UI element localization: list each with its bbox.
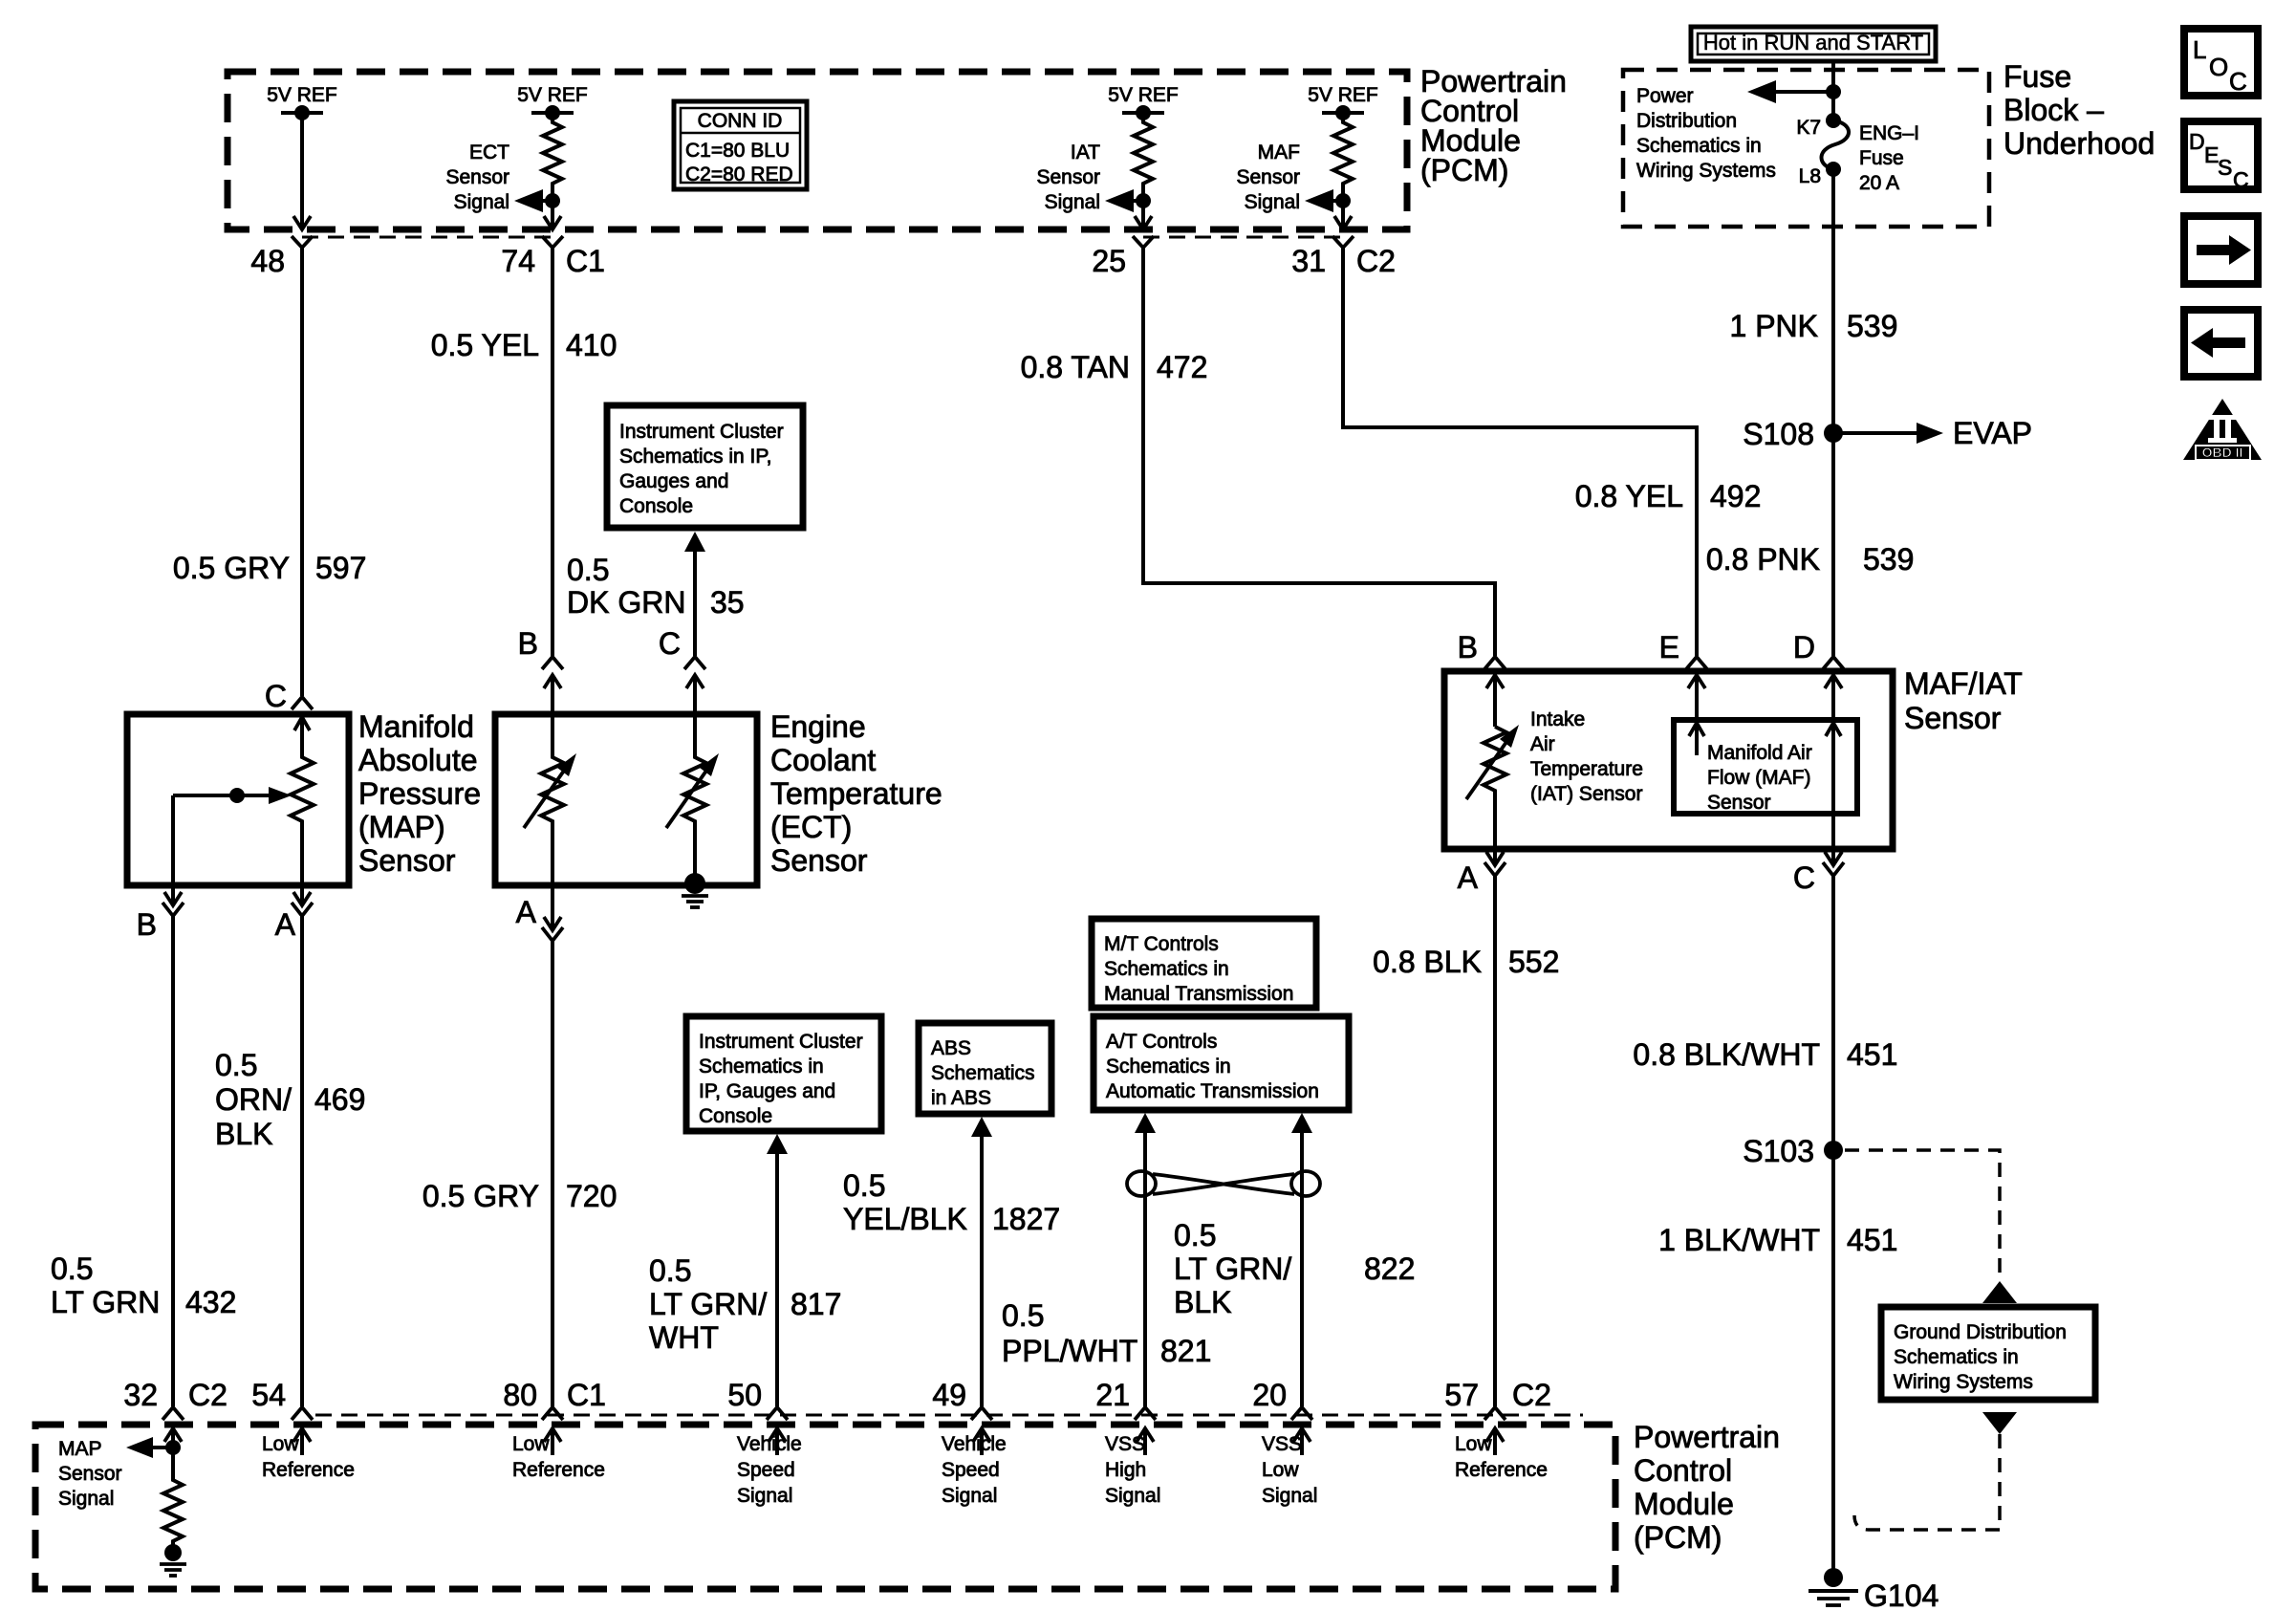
- svg-text:0.8 PNK: 0.8 PNK: [1706, 542, 1820, 577]
- svg-text:C1=80 BLU: C1=80 BLU: [685, 140, 790, 162]
- wire: 0.8 BLK/WHT 451 (MAF C to S103): [1831, 876, 1835, 1150]
- svg-text:Manual Transmission: Manual Transmission: [1104, 983, 1293, 1005]
- svg-text:(ECT): (ECT): [770, 810, 852, 844]
- wire: 0.5 DK GRN 35 (ECT C to cluster): [684, 532, 705, 656]
- wire: 0.5 YEL 410 (pin 74 to ECT B): [551, 248, 554, 656]
- svg-text:B: B: [518, 626, 538, 661]
- label: Vehicle Speed Signal (49): [942, 1433, 1007, 1507]
- svg-text:720: 720: [566, 1179, 617, 1213]
- wire: D through MAF: [1826, 723, 1841, 865]
- svg-text:Signal: Signal: [1105, 1485, 1160, 1507]
- label: MAF Sensor Signal: [1236, 142, 1300, 213]
- svg-text:Signal: Signal: [1045, 191, 1100, 213]
- svg-text:Underhood: Underhood: [2004, 126, 2155, 161]
- svg-text:1 PNK: 1 PNK: [1730, 309, 1818, 343]
- PCM top dashed box: [227, 72, 1407, 229]
- connector dashed line bottom: [315, 1414, 1583, 1417]
- label: 0.5 DK GRN 35: [567, 553, 745, 620]
- connector pin B (MAP bottom): [137, 885, 184, 942]
- svg-text:Gauges and: Gauges and: [619, 470, 728, 492]
- svg-text:0.5: 0.5: [843, 1168, 885, 1203]
- svg-text:Low: Low: [1262, 1459, 1299, 1481]
- icon arrow left: [2184, 310, 2258, 377]
- svg-text:Control: Control: [1634, 1453, 1732, 1488]
- Fuse Block dashed box: [1623, 70, 1989, 227]
- label: 0.5 LT GRN 432: [51, 1252, 236, 1319]
- svg-text:High: High: [1105, 1459, 1146, 1481]
- svg-text:Automatic Transmission: Automatic Transmission: [1106, 1080, 1319, 1102]
- label: 0.5 YEL/BLK 1827: [843, 1168, 1060, 1236]
- wire: 0.5 LT GRN/BLK 822 (pin 20 to A/T): [1291, 1113, 1312, 1406]
- wire: ECT signal to pin 74: [544, 201, 561, 229]
- label: MAP Sensor Signal: [58, 1438, 122, 1510]
- svg-text:Sensor: Sensor: [445, 166, 509, 188]
- connector pin A (MAP bottom): [275, 885, 313, 942]
- svg-text:C1: C1: [567, 1378, 606, 1412]
- wire: 0.5 PPL/WHT 821 (pin 21 to A/T): [1135, 1113, 1156, 1406]
- svg-text:Schematics in: Schematics in: [1894, 1346, 2019, 1368]
- svg-text:PPL/WHT: PPL/WHT: [1002, 1334, 1137, 1368]
- svg-text:A/T Controls: A/T Controls: [1106, 1031, 1217, 1053]
- resistor: PCM pull-up (MAF): [1333, 113, 1353, 201]
- svg-text:5V REF: 5V REF: [267, 84, 337, 106]
- svg-text:Instrument Cluster: Instrument Cluster: [619, 421, 784, 443]
- thermistor: ECT left: [524, 714, 576, 885]
- svg-text:Sensor: Sensor: [1707, 792, 1771, 814]
- svg-text:LT GRN/: LT GRN/: [649, 1287, 767, 1321]
- svg-text:Signal: Signal: [1245, 191, 1300, 213]
- connector pin 80 C1: [503, 1378, 606, 1455]
- PCM bottom dashed box: [35, 1425, 1615, 1589]
- ground G104: [1809, 1568, 1939, 1611]
- svg-text:CONN ID: CONN ID: [698, 110, 783, 132]
- label: Low Reference (57): [1455, 1433, 1548, 1481]
- connector pin 57 C2: [1444, 1378, 1551, 1455]
- svg-text:IAT: IAT: [1071, 142, 1100, 163]
- label: 0.8 PNK 539: [1706, 542, 1915, 577]
- svg-text:Reference: Reference: [512, 1459, 605, 1481]
- svg-text:VSS: VSS: [1105, 1433, 1145, 1455]
- svg-text:Module: Module: [1634, 1487, 1734, 1521]
- A/T Controls box: [1094, 1016, 1349, 1110]
- icon OBD II: [2183, 399, 2262, 460]
- svg-text:0.5 GRY: 0.5 GRY: [422, 1179, 539, 1213]
- svg-text:Signal: Signal: [1262, 1485, 1317, 1507]
- node: 5V REF (MAP): [267, 84, 337, 120]
- connector dashed line top right: [1143, 236, 1343, 239]
- svg-text:Low: Low: [512, 1433, 550, 1455]
- svg-text:S103: S103: [1743, 1134, 1814, 1168]
- label: Power Distribution Schematics in Wiring Systems: [1636, 85, 1776, 182]
- svg-text:Block –: Block –: [2004, 93, 2104, 127]
- svg-text:32: 32: [123, 1378, 158, 1412]
- svg-text:54: 54: [251, 1378, 286, 1412]
- svg-text:S: S: [2218, 155, 2232, 180]
- label: Fuse Block - Underhood: [2004, 59, 2155, 161]
- CONN ID box: [674, 101, 807, 189]
- svg-text:OBD II: OBD II: [2202, 445, 2243, 460]
- label: 0.5 GRY 720: [422, 1179, 617, 1213]
- connector pin 32 C2: [123, 1378, 227, 1448]
- svg-text:Sensor: Sensor: [1904, 701, 2002, 735]
- resistor: PCM (MAP signal): [163, 1448, 183, 1551]
- label: IAT Sensor Signal: [1036, 142, 1100, 213]
- svg-text:0.5: 0.5: [1174, 1218, 1216, 1252]
- svg-text:Schematics in: Schematics in: [1104, 958, 1229, 980]
- wire: fuse feed from Hot box: [1831, 61, 1835, 120]
- svg-text:WHT: WHT: [649, 1320, 719, 1355]
- svg-text:539: 539: [1847, 309, 1897, 343]
- wire: IAT signal to pin 25: [1135, 201, 1152, 229]
- svg-text:20: 20: [1252, 1378, 1287, 1412]
- svg-text:Signal: Signal: [58, 1488, 114, 1510]
- connector dashed line top left: [302, 236, 552, 239]
- svg-text:0.5 YEL: 0.5 YEL: [431, 328, 539, 362]
- svg-text:Coolant: Coolant: [770, 743, 876, 777]
- connector pin 48 C1: [250, 236, 313, 278]
- svg-text:48: 48: [250, 244, 285, 278]
- wire: 0.5 GRY 597 (pin 48 to MAP C): [300, 248, 304, 696]
- svg-text:49: 49: [932, 1378, 966, 1412]
- svg-text:O: O: [2209, 53, 2228, 81]
- svg-text:M/T Controls: M/T Controls: [1104, 933, 1219, 955]
- wire: 0.5 YEL/BLK 1827 (pin 49 to ABS): [971, 1117, 992, 1406]
- svg-text:0.8 BLK/WHT: 0.8 BLK/WHT: [1633, 1037, 1820, 1072]
- svg-text:G104: G104: [1864, 1578, 1939, 1611]
- svg-text:C2=80 RED: C2=80 RED: [685, 163, 793, 185]
- svg-text:Schematics in: Schematics in: [1636, 135, 1762, 157]
- svg-text:Power: Power: [1636, 85, 1694, 107]
- svg-text:0.5: 0.5: [51, 1252, 93, 1286]
- Ground Distribution box: [1881, 1307, 2095, 1400]
- wire: 0.8 YEL 492 (pin 31 to MAF E): [1343, 248, 1697, 656]
- svg-text:in ABS: in ABS: [931, 1087, 991, 1109]
- ground: PCM internal: [160, 1544, 186, 1576]
- svg-text:(IAT) Sensor: (IAT) Sensor: [1530, 783, 1642, 805]
- svg-text:539: 539: [1863, 542, 1914, 577]
- twisted pair symbol (VSS): [1127, 1171, 1320, 1196]
- svg-text:469: 469: [314, 1082, 365, 1117]
- arrow: IAT sensor signal (left): [1105, 189, 1151, 212]
- wire: 0.8 TAN 472 (pin 25 to IAT B): [1143, 248, 1495, 656]
- svg-text:(PCM): (PCM): [1634, 1520, 1722, 1555]
- connector pin 31 C2: [1291, 236, 1396, 278]
- wire: 1 PNK 539 (fuse to S108): [1831, 169, 1835, 433]
- label: Low Reference (80): [512, 1433, 605, 1481]
- Instrument Cluster box (bottom): [686, 1016, 881, 1131]
- svg-text:D: D: [2189, 129, 2205, 154]
- M/T Controls box: [1092, 919, 1316, 1008]
- svg-text:C: C: [1793, 860, 1815, 895]
- svg-text:492: 492: [1710, 479, 1761, 513]
- svg-text:Low: Low: [1455, 1433, 1492, 1455]
- svg-text:35: 35: [710, 585, 745, 620]
- ABS Schematics box: [919, 1023, 1051, 1114]
- svg-text:C1: C1: [566, 244, 605, 278]
- label: Manifold Air Flow (MAF) Sensor: [1707, 742, 1812, 814]
- svg-text:Schematics in IP,: Schematics in IP,: [619, 446, 772, 468]
- svg-text:Intake: Intake: [1530, 708, 1585, 730]
- resistor: PCM pull-up (ECT): [543, 113, 562, 201]
- svg-text:(PCM): (PCM): [1420, 153, 1508, 187]
- svg-text:K7: K7: [1796, 117, 1821, 139]
- thermistor: IAT: [1466, 725, 1519, 865]
- svg-text:Vehicle: Vehicle: [737, 1433, 802, 1455]
- label: VSS Low Signal (20): [1262, 1433, 1317, 1507]
- svg-text:410: 410: [566, 328, 617, 362]
- svg-text:VSS: VSS: [1262, 1433, 1302, 1455]
- svg-text:Distribution: Distribution: [1636, 110, 1737, 132]
- icon DESC: [2184, 121, 2258, 192]
- label: Powertrain Control Module (PCM) bottom right: [1634, 1420, 1780, 1555]
- svg-text:Signal: Signal: [942, 1485, 997, 1507]
- svg-text:Engine: Engine: [770, 709, 866, 744]
- svg-text:(MAP): (MAP): [358, 810, 445, 844]
- svg-text:Wiring Systems: Wiring Systems: [1636, 160, 1776, 182]
- connector pin A (ECT bottom): [516, 885, 563, 941]
- label: Vehicle Speed Signal (50): [737, 1433, 802, 1507]
- icon LOC: [2184, 29, 2258, 96]
- svg-text:0.5: 0.5: [567, 553, 609, 587]
- svg-text:80: 80: [503, 1378, 537, 1412]
- svg-text:Console: Console: [699, 1105, 772, 1127]
- svg-text:Fuse: Fuse: [2004, 59, 2071, 94]
- label: Intake Air Temperature (IAT) Sensor: [1530, 708, 1643, 805]
- svg-text:B: B: [1458, 630, 1478, 664]
- svg-text:ENG–I: ENG–I: [1859, 122, 1919, 144]
- connector pin 50: [727, 1378, 788, 1455]
- svg-text:Console: Console: [619, 495, 693, 517]
- svg-text:0.8 BLK: 0.8 BLK: [1373, 945, 1482, 979]
- label: Powertrain Control Module (PCM) top right: [1420, 64, 1567, 187]
- svg-text:5V REF: 5V REF: [517, 84, 588, 106]
- wire: 0.5 ORN/BLK 469 (MAP A to pin 54): [300, 916, 304, 1406]
- svg-text:597: 597: [315, 551, 366, 585]
- svg-text:BLK: BLK: [1174, 1285, 1231, 1319]
- connector pin B (ECT): [518, 626, 563, 714]
- svg-text:1 BLK/WHT: 1 BLK/WHT: [1658, 1223, 1820, 1257]
- svg-text:B: B: [137, 907, 157, 942]
- connector pin 54: [251, 1378, 313, 1455]
- svg-text:Reference: Reference: [1455, 1459, 1548, 1481]
- svg-text:LT GRN/: LT GRN/: [1174, 1252, 1291, 1286]
- svg-text:20 A: 20 A: [1859, 172, 1899, 194]
- connector pin D (MAF/IAT top): [1793, 630, 1844, 720]
- wire: 0.5 GRY 720 (ECT A to pin 80): [551, 941, 554, 1406]
- svg-text:C2: C2: [1356, 244, 1396, 278]
- connector pin B (MAF/IAT top): [1458, 630, 1505, 727]
- svg-text:Absolute: Absolute: [358, 743, 478, 777]
- node: 5V REF (MAF): [1308, 84, 1378, 120]
- svg-text:MAF: MAF: [1258, 142, 1300, 163]
- svg-text:Schematics in: Schematics in: [1106, 1056, 1231, 1078]
- svg-text:25: 25: [1092, 244, 1126, 278]
- svg-text:21: 21: [1095, 1378, 1130, 1412]
- svg-text:5V REF: 5V REF: [1108, 84, 1179, 106]
- svg-text:Reference: Reference: [262, 1459, 355, 1481]
- svg-text:E: E: [1659, 630, 1679, 664]
- svg-text:Temperature: Temperature: [770, 776, 942, 811]
- MAF/IAT sensor box: [1444, 671, 1893, 849]
- wire: 1 BLK/WHT 451 (S103 to G104): [1831, 1150, 1835, 1578]
- svg-text:Air: Air: [1530, 733, 1555, 755]
- thermistor: ECT right: [666, 714, 719, 880]
- label: 0.8 BLK 552: [1373, 945, 1559, 979]
- svg-text:821: 821: [1160, 1334, 1211, 1368]
- connector pin C (ECT): [659, 626, 705, 714]
- svg-text:D: D: [1793, 630, 1815, 664]
- svg-text:0.5: 0.5: [649, 1253, 691, 1288]
- svg-text:552: 552: [1508, 945, 1559, 979]
- resistor: PCM pull-up (IAT): [1134, 113, 1153, 201]
- connector pin 74 C1: [501, 236, 605, 278]
- svg-text:50: 50: [727, 1378, 762, 1412]
- fuse ENG-I (K7/L8): [1796, 113, 1849, 187]
- icon arrow right: [2184, 216, 2258, 284]
- svg-text:Ground Distribution: Ground Distribution: [1894, 1321, 2067, 1343]
- label: Engine Coolant Temperature (ECT) Sensor: [770, 709, 942, 878]
- connector pin A (MAF/IAT bottom): [1458, 852, 1505, 895]
- svg-text:5V REF: 5V REF: [1308, 84, 1378, 106]
- wiper arrow (MAP): [173, 787, 292, 885]
- svg-text:ORN/: ORN/: [215, 1082, 292, 1117]
- connector pin 49: [932, 1378, 992, 1455]
- svg-text:31: 31: [1291, 244, 1326, 278]
- connector pin 21: [1095, 1378, 1156, 1455]
- svg-text:L8: L8: [1799, 165, 1821, 187]
- wire: 0.8 PNK 539 (S108 to MAF D): [1831, 433, 1835, 656]
- wire: 0.8 BLK 552 (MAF A to pin 57): [1493, 876, 1497, 1406]
- svg-text:Speed: Speed: [737, 1459, 795, 1481]
- svg-text:Sensor: Sensor: [1236, 166, 1300, 188]
- svg-text:451: 451: [1847, 1037, 1897, 1072]
- dashed branch: S103 to Ground Distribution: [1845, 1150, 2017, 1303]
- svg-text:Hot in RUN and START: Hot in RUN and START: [1703, 31, 1923, 54]
- svg-text:A: A: [1458, 860, 1479, 895]
- arrow: MAP Sensor Signal (left): [126, 1437, 181, 1458]
- svg-text:MAF/IAT: MAF/IAT: [1904, 666, 2023, 701]
- svg-text:0.5 GRY: 0.5 GRY: [173, 551, 290, 585]
- node: 5V REF (IAT): [1108, 84, 1179, 120]
- svg-text:Signal: Signal: [737, 1485, 792, 1507]
- svg-text:Vehicle: Vehicle: [942, 1433, 1007, 1455]
- svg-text:C: C: [2229, 67, 2247, 96]
- label: Low Reference (54): [262, 1433, 355, 1481]
- connector pin 25 C2: [1092, 236, 1154, 278]
- arrow: to EVAP: [1833, 416, 2032, 450]
- svg-text:472: 472: [1157, 350, 1207, 384]
- label: 0.5 LT GRN/BLK 822: [1174, 1218, 1415, 1319]
- svg-text:Sensor: Sensor: [358, 843, 456, 878]
- MAF inner box: [1674, 720, 1857, 814]
- arrow: ECT sensor signal (left): [514, 189, 560, 212]
- connector pin 20: [1252, 1378, 1312, 1455]
- splice S103: [1743, 1134, 1843, 1168]
- svg-text:C: C: [265, 679, 287, 713]
- svg-text:L: L: [2193, 35, 2206, 64]
- svg-text:0.5: 0.5: [215, 1048, 257, 1082]
- svg-text:Wiring Systems: Wiring Systems: [1894, 1371, 2033, 1393]
- label: 0.5 PPL/WHT 821: [1002, 1298, 1211, 1368]
- wire: 0.5 LT GRN/WHT 817 (pin 50 to cluster): [767, 1134, 788, 1406]
- svg-text:C2: C2: [1512, 1378, 1551, 1412]
- connector pin E (MAF/IAT top): [1659, 630, 1707, 720]
- svg-text:Manifold: Manifold: [358, 709, 474, 744]
- pin C (MAP): [265, 679, 313, 730]
- label: VSS High Signal (21): [1105, 1433, 1160, 1507]
- svg-text:74: 74: [501, 244, 535, 278]
- svg-text:Flow (MAF): Flow (MAF): [1707, 767, 1811, 789]
- svg-text:Instrument Cluster: Instrument Cluster: [699, 1031, 863, 1053]
- svg-text:Sensor: Sensor: [1036, 166, 1100, 188]
- svg-text:S108: S108: [1743, 417, 1814, 451]
- connector pin C (MAF/IAT bottom): [1793, 852, 1844, 895]
- svg-text:451: 451: [1847, 1223, 1897, 1257]
- splice S108: [1743, 417, 1843, 451]
- label: MAF/IAT Sensor: [1904, 666, 2023, 735]
- label: 0.8 BLK/WHT 451: [1633, 1037, 1897, 1072]
- MAP sensor box: [127, 714, 349, 885]
- svg-text:IP, Gauges and: IP, Gauges and: [699, 1080, 835, 1102]
- ground: ECT internal: [682, 873, 708, 907]
- svg-text:Sensor: Sensor: [770, 843, 868, 878]
- svg-text:Speed: Speed: [942, 1459, 1000, 1481]
- label: ENG-I Fuse 20 A: [1859, 122, 1919, 194]
- svg-text:A: A: [516, 895, 537, 929]
- svg-text:Powertrain: Powertrain: [1634, 1420, 1780, 1454]
- svg-text:Temperature: Temperature: [1530, 758, 1643, 780]
- label: 0.5 LT GRN/WHT 817: [649, 1253, 841, 1355]
- svg-text:ECT: ECT: [469, 142, 509, 163]
- svg-text:A: A: [275, 907, 296, 942]
- ECT sensor box: [495, 714, 757, 885]
- svg-text:Sensor: Sensor: [58, 1463, 122, 1485]
- label: 0.8 YEL 492: [1575, 479, 1762, 513]
- svg-text:0.5: 0.5: [1002, 1298, 1044, 1333]
- Hot in RUN and START box: [1691, 27, 1936, 61]
- svg-text:57: 57: [1444, 1378, 1479, 1412]
- svg-text:C: C: [659, 626, 681, 661]
- svg-text:LT GRN: LT GRN: [51, 1285, 160, 1319]
- svg-text:Low: Low: [262, 1433, 299, 1455]
- svg-text:MAP: MAP: [58, 1438, 102, 1460]
- svg-text:C: C: [2233, 167, 2249, 192]
- arrow: power distribution (left): [1747, 80, 1841, 103]
- svg-text:817: 817: [791, 1287, 841, 1321]
- wire: MAF signal to pin 31: [1334, 201, 1352, 229]
- label: 1 BLK/WHT 451: [1658, 1223, 1897, 1257]
- svg-text:Manifold Air: Manifold Air: [1707, 742, 1812, 764]
- svg-text:822: 822: [1364, 1252, 1415, 1286]
- svg-text:0.8 YEL: 0.8 YEL: [1575, 479, 1683, 513]
- svg-text:0.8 TAN: 0.8 TAN: [1021, 350, 1130, 384]
- label: 0.5 ORN/BLK 469: [215, 1048, 365, 1151]
- svg-text:Schematics in: Schematics in: [699, 1056, 824, 1078]
- svg-text:Fuse: Fuse: [1859, 147, 1904, 169]
- node: 5V REF (ECT): [517, 84, 588, 120]
- label: ECT Sensor Signal: [445, 142, 509, 213]
- label: Manifold Absolute Pressure (MAP) Sensor: [358, 709, 481, 878]
- Instrument Cluster box (top): [607, 405, 803, 528]
- wire: E stub inside MAF: [1689, 723, 1704, 755]
- label: 0.5 GRY 597: [173, 551, 367, 585]
- svg-text:C2: C2: [188, 1378, 227, 1412]
- dashed return: Ground Distribution to G104: [1854, 1412, 2017, 1530]
- svg-text:Schematics: Schematics: [931, 1062, 1035, 1084]
- wire: 5V REF to pin 48: [293, 113, 311, 229]
- svg-text:Signal: Signal: [454, 191, 509, 213]
- svg-text:BLK: BLK: [215, 1117, 272, 1151]
